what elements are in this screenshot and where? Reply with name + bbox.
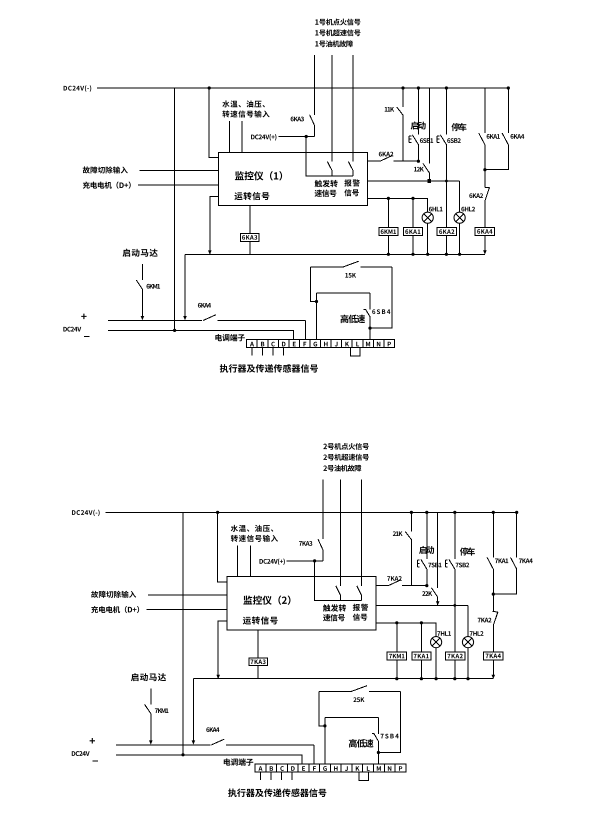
node alarm/6SB2 cross	[445, 180, 448, 183]
label 报警信号	[344, 179, 359, 196]
wire rail to battery plus	[183, 254, 187, 320]
wire to 7KA4 coil	[492, 625, 494, 652]
wire bus to monitor	[218, 512, 227, 582]
wire 7KA1 contact drop	[492, 512, 494, 557]
wire terminal stubs A-D	[260, 772, 292, 780]
wire 15K line	[311, 266, 392, 268]
label lamp 7HL2	[470, 631, 484, 636]
label contact 21K	[393, 531, 403, 536]
wire bus to battery minus	[174, 88, 176, 330]
label contact 6KA2 b	[469, 193, 483, 198]
wire 21K drop	[410, 512, 412, 531]
wire to 7KA1 coil	[420, 623, 422, 652]
pushbutton 6SB4	[364, 309, 370, 317]
wire 7SB2 drop	[454, 512, 456, 559]
lamp 7HL2	[462, 637, 473, 648]
contact 6KA2 b	[484, 187, 489, 201]
label 高低速	[340, 315, 365, 324]
wire 运转信号 output	[218, 621, 227, 679]
wire sensor input lines	[229, 121, 242, 152]
label 触发转速信号	[315, 180, 338, 197]
wire terminal stubs A-D	[252, 348, 284, 356]
label contact 6KA1	[487, 134, 500, 139]
monitor unit U2 box	[227, 577, 376, 630]
wire monitor to 7KA3 coil	[257, 630, 259, 658]
label 2号油机故障	[323, 465, 361, 472]
contact 6KA4	[485, 133, 508, 170]
wire monitor to 6KA3 coil	[249, 205, 251, 233]
relay coil 7KA1	[412, 652, 431, 660]
pushbutton 6SB1	[409, 135, 419, 161]
wire coil return rail	[193, 678, 493, 680]
node 7SB1 junction	[425, 584, 428, 587]
node minus rail junction	[173, 329, 176, 332]
label contact 11K	[385, 107, 394, 112]
wire running output to coils	[376, 623, 436, 637]
node minus rail junction	[181, 753, 184, 756]
contact 6KA2 a	[380, 155, 393, 161]
wire 15K return drop	[370, 267, 392, 328]
wire 6KA3 coil to rail	[249, 241, 251, 254]
wire G terminal riser	[316, 293, 318, 340]
contact 7KA3	[318, 539, 323, 561]
wire DC24V(-) top bus	[97, 87, 508, 89]
wire 6SB1 drop	[417, 88, 419, 135]
label contact 6KA2 a	[379, 152, 394, 157]
label 运转信号	[243, 616, 278, 624]
wire K-L link bracket	[359, 772, 369, 780]
pushbutton 7SB2	[445, 559, 455, 652]
wire K-L link bracket	[351, 348, 361, 356]
label contact 12K	[414, 167, 424, 172]
contact 11K	[397, 107, 403, 161]
wire fault-cut input	[148, 594, 227, 596]
terminal letters	[250, 342, 391, 347]
relay coil 6KA3	[241, 233, 259, 241]
lamp 7HL1	[431, 637, 442, 648]
label 启动	[411, 121, 426, 129]
wire 7SB1 drop	[426, 512, 428, 559]
label contact 6KA4	[511, 134, 525, 139]
label contact 6KM1	[147, 284, 161, 289]
node 6SB1 junction	[417, 160, 420, 163]
wire to 6KA1 coil	[412, 198, 414, 227]
wire bus to monitor	[209, 88, 218, 158]
label button 7SB4	[381, 734, 399, 739]
label contact 22K	[422, 591, 432, 596]
contact 7KA2 a	[388, 580, 401, 586]
wire idle jog	[319, 691, 325, 726]
wire 运转信号 output	[210, 197, 219, 255]
relay coil 6KA4	[475, 228, 494, 236]
label 触发转速信号	[323, 604, 346, 621]
wire 7KA4 contact drop	[516, 512, 518, 557]
wire 25K line	[319, 690, 400, 692]
pushbutton 6SB2	[437, 135, 447, 228]
wire 6KA4 contact drop	[507, 88, 509, 133]
label 充电电机（D+）	[91, 606, 139, 613]
label contact 6KA4 interlock	[206, 727, 219, 732]
relay coil 6KM1	[379, 227, 398, 235]
node 6KA1/6KA4 join	[483, 168, 486, 171]
contact 12K	[423, 164, 429, 182]
wire alarm output	[367, 180, 459, 182]
contact 6KA4 interlock	[211, 739, 224, 745]
label 执行器及传递传感器信号	[228, 788, 326, 797]
label 故障切除输入	[83, 166, 128, 173]
label button 6SB1	[420, 138, 433, 143]
label battery DC24V	[63, 327, 81, 332]
contact 21K	[405, 531, 411, 585]
contact overspeed internal	[327, 162, 332, 177]
label contact 7KA2 a	[387, 576, 402, 581]
wire fault signal drop	[352, 55, 354, 162]
node rail junctions	[208, 250, 461, 256]
wire lamp 7HL2 to rail	[467, 648, 469, 679]
label button 7SB2	[456, 563, 470, 568]
wire 7KA3 coil to rail	[257, 666, 259, 679]
wire trigger-speed output	[367, 160, 418, 162]
label contact 6KA4 interlock	[198, 303, 211, 308]
wire alarm output	[376, 604, 468, 606]
label 故障切除输入	[91, 591, 136, 598]
label contact 7KA3	[299, 541, 312, 546]
node 7KA1/7KA4 join	[492, 593, 495, 596]
wire 6KA2 coil to rail	[445, 236, 447, 255]
relay coil 6KA1	[403, 227, 422, 235]
wire overspeed signal drop	[340, 479, 342, 586]
wire DC24V(+) feed	[287, 561, 323, 577]
contact fault internal	[348, 162, 353, 177]
label 2号机点火信号	[323, 443, 369, 450]
wire 6SB2 drop	[445, 88, 447, 135]
wire 7KM1 coil to rail	[396, 660, 398, 679]
label 高低速	[349, 739, 374, 748]
wire idle box right	[369, 293, 371, 340]
label 电调端子	[215, 334, 245, 341]
label 启动马达	[123, 249, 158, 257]
contact 6KA1	[479, 133, 485, 187]
terminal strip XT1	[247, 340, 395, 348]
relay coil 7KA4	[484, 652, 503, 660]
label battery -	[92, 760, 98, 762]
wire 25K return drop	[378, 691, 400, 752]
label lamp 6HL2	[461, 207, 475, 212]
label 水温、油压、	[231, 525, 274, 532]
label 充电电机（D+）	[83, 182, 131, 189]
label contact 7KM1	[155, 708, 169, 713]
contact 6KM1	[136, 280, 144, 320]
label contact 25K	[353, 697, 364, 702]
wire alarm to lamp 7HL2	[467, 605, 469, 636]
label contact 15K	[345, 273, 356, 278]
wire lamp 6HL2 to rail	[459, 223, 461, 254]
wire DC24V(+) feed	[278, 137, 314, 153]
node 12K to alarm line	[428, 179, 432, 183]
wire 6KM1 coil to rail	[387, 236, 389, 255]
wire battery minus rail	[116, 755, 302, 764]
label 转速信号输入	[231, 535, 278, 542]
label 水温、油压、	[222, 100, 265, 107]
monitor internal sub-box	[306, 152, 353, 176]
contact 7KM1	[145, 704, 153, 744]
wire alarm to lamp 6HL2	[459, 181, 461, 212]
label 执行器及传递传感器信号	[220, 364, 318, 373]
label 监控仪（2）	[243, 595, 290, 604]
node bus junction dots	[216, 511, 518, 514]
label 1号油机故障	[315, 40, 353, 47]
wire DC24V(-) top bus	[105, 511, 516, 513]
wire bus to battery minus	[182, 512, 184, 754]
wire charger input	[146, 609, 226, 611]
node alarm/7SB2 cross	[453, 604, 456, 607]
label 1号机点火信号	[315, 19, 360, 26]
contact 6KA3	[310, 115, 315, 137]
label 启动	[419, 546, 434, 554]
relay coil 6KA2	[437, 227, 456, 235]
wire 11K drop	[402, 88, 404, 107]
label 运转信号	[234, 192, 269, 200]
wire ignition signal drop	[322, 479, 324, 539]
label DC24V(+)	[259, 558, 284, 565]
wire 22K drop	[437, 512, 439, 588]
wire trigger-speed output	[376, 585, 427, 587]
wire 7KA2 coil to rail	[454, 660, 456, 679]
relay coil 7KA3	[249, 658, 267, 666]
wire idle box top	[325, 716, 379, 718]
wire 12K drop	[428, 88, 430, 164]
node idle/M junction	[377, 751, 380, 754]
wire coil return rail	[185, 253, 485, 255]
terminal letters	[258, 766, 402, 771]
label contact 7KA2 b	[478, 618, 492, 623]
label 2号机超速信号	[323, 454, 369, 461]
contact overspeed internal	[336, 586, 341, 601]
label 电调端子	[224, 758, 254, 765]
label 启动马达	[131, 673, 166, 681]
monitor unit U1 box	[218, 152, 367, 205]
label 1号机超速信号	[315, 29, 360, 36]
node DC24V(+) junction	[305, 135, 308, 138]
wire idle box right	[377, 717, 379, 764]
monitor internal sub-box	[315, 577, 362, 601]
wire overspeed signal drop	[331, 55, 333, 162]
wire battery plus rail	[108, 321, 306, 340]
node idle junction	[315, 300, 318, 303]
wire lamp 7HL1 to rail	[435, 648, 437, 679]
node bus junction dots	[208, 86, 510, 89]
node idle junction	[323, 724, 326, 727]
contact 22K	[432, 588, 438, 606]
wire ignition signal drop	[313, 55, 315, 115]
contact 7KA4	[493, 557, 516, 594]
wire running output to coils	[367, 198, 427, 212]
lamp 6HL1	[422, 212, 433, 223]
wire 6KA1 coil to rail	[412, 236, 414, 255]
wire fault signal drop	[361, 479, 363, 586]
node coil feed junctions	[387, 197, 415, 200]
label battery +	[90, 738, 95, 744]
contact fault internal	[357, 586, 362, 601]
relay coil 7KM1	[387, 652, 406, 660]
label battery +	[81, 314, 86, 320]
contact 15K	[343, 261, 359, 267]
node rail junctions	[216, 675, 469, 681]
label battery DC24V	[72, 751, 90, 756]
node 22K to alarm line	[436, 601, 440, 605]
wire sensor input lines	[238, 545, 251, 576]
label button 7SB1	[428, 563, 441, 568]
label button 6SB2	[447, 138, 461, 143]
node DC24V(+) junction	[313, 559, 316, 562]
contact 7KA1	[487, 557, 493, 611]
wire idle jog	[311, 267, 317, 302]
wire to 7KM1 coil	[396, 623, 398, 652]
terminal strip XT2	[255, 764, 406, 772]
label lamp 7HL1	[437, 631, 451, 636]
pushbutton 7SB1	[417, 559, 427, 585]
label 监控仪（1）	[235, 171, 282, 180]
wire 6KA4 coil to rail end	[483, 235, 487, 254]
pushbutton 7SB4	[372, 734, 378, 742]
label 转速信号输入	[222, 110, 269, 117]
node idle/M junction	[368, 327, 371, 330]
wire starter drop	[141, 264, 143, 280]
wire idle box top	[317, 292, 371, 294]
wire rail to battery plus	[192, 679, 196, 745]
wire charger input	[138, 184, 218, 186]
wire lamp 6HL1 to rail	[427, 223, 429, 254]
wire starter drop	[150, 688, 152, 704]
wire to 6KM1 coil	[387, 198, 389, 227]
label DC24V(+)	[251, 134, 276, 141]
label 报警信号	[353, 604, 368, 621]
label DC24V(-) bus	[72, 510, 100, 517]
wire battery minus rail	[108, 330, 294, 339]
wire 7KA1 coil to rail	[420, 660, 422, 679]
contact 25K	[351, 686, 367, 692]
wire battery plus rail	[116, 745, 314, 764]
wire fault-cut input	[140, 169, 219, 171]
label lamp 6HL1	[429, 207, 443, 212]
wire G terminal riser	[324, 717, 326, 764]
label contact 6KA3	[291, 117, 304, 122]
label 停车	[451, 123, 466, 131]
relay coil 7KA2	[446, 652, 465, 660]
label DC24V(-) bus	[64, 85, 92, 92]
wire 6KA1 contact drop	[484, 88, 486, 133]
label contact 7KA4	[519, 559, 533, 564]
contact 7KA2 b	[493, 612, 498, 626]
wire to 6KA4 coil	[484, 201, 486, 228]
lamp 6HL2	[454, 212, 465, 223]
label battery -	[84, 336, 90, 338]
label contact 7KA1	[495, 559, 508, 564]
contact 6KA4 interlock	[203, 315, 216, 321]
node coil feed junctions	[395, 621, 423, 624]
label 停车	[460, 547, 475, 555]
wire 7KA4 coil to rail end	[492, 660, 496, 679]
label button 6SB4	[372, 309, 390, 314]
